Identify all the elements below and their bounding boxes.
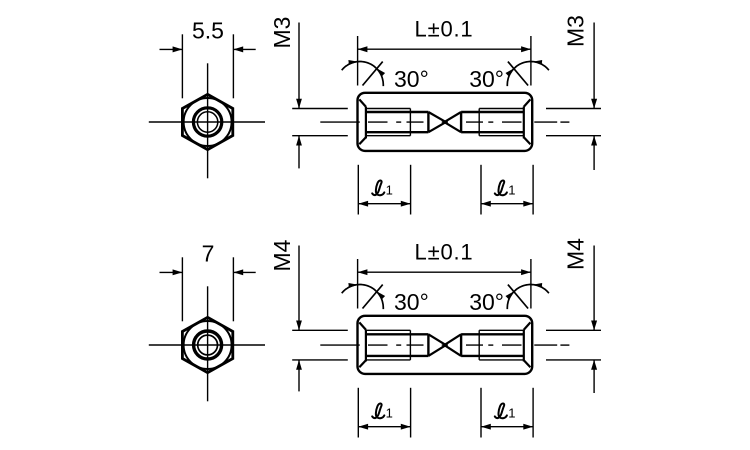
svg-text:M3: M3 [563, 15, 589, 47]
svg-text:L±0.1: L±0.1 [415, 240, 474, 265]
svg-text:L±0.1: L±0.1 [415, 17, 474, 42]
svg-text:1: 1 [508, 183, 515, 198]
svg-text:M4: M4 [269, 239, 295, 271]
svg-text:M3: M3 [269, 17, 295, 49]
svg-text:30°: 30° [394, 289, 429, 315]
svg-text:1: 1 [508, 406, 515, 421]
svg-text:30°: 30° [469, 66, 504, 92]
svg-text:1: 1 [386, 406, 393, 421]
svg-text:30°: 30° [394, 66, 429, 92]
svg-text:1: 1 [386, 183, 393, 198]
svg-text:30°: 30° [469, 289, 504, 315]
svg-text:5.5: 5.5 [192, 17, 224, 43]
svg-text:M4: M4 [563, 238, 589, 270]
svg-text:7: 7 [202, 240, 215, 266]
